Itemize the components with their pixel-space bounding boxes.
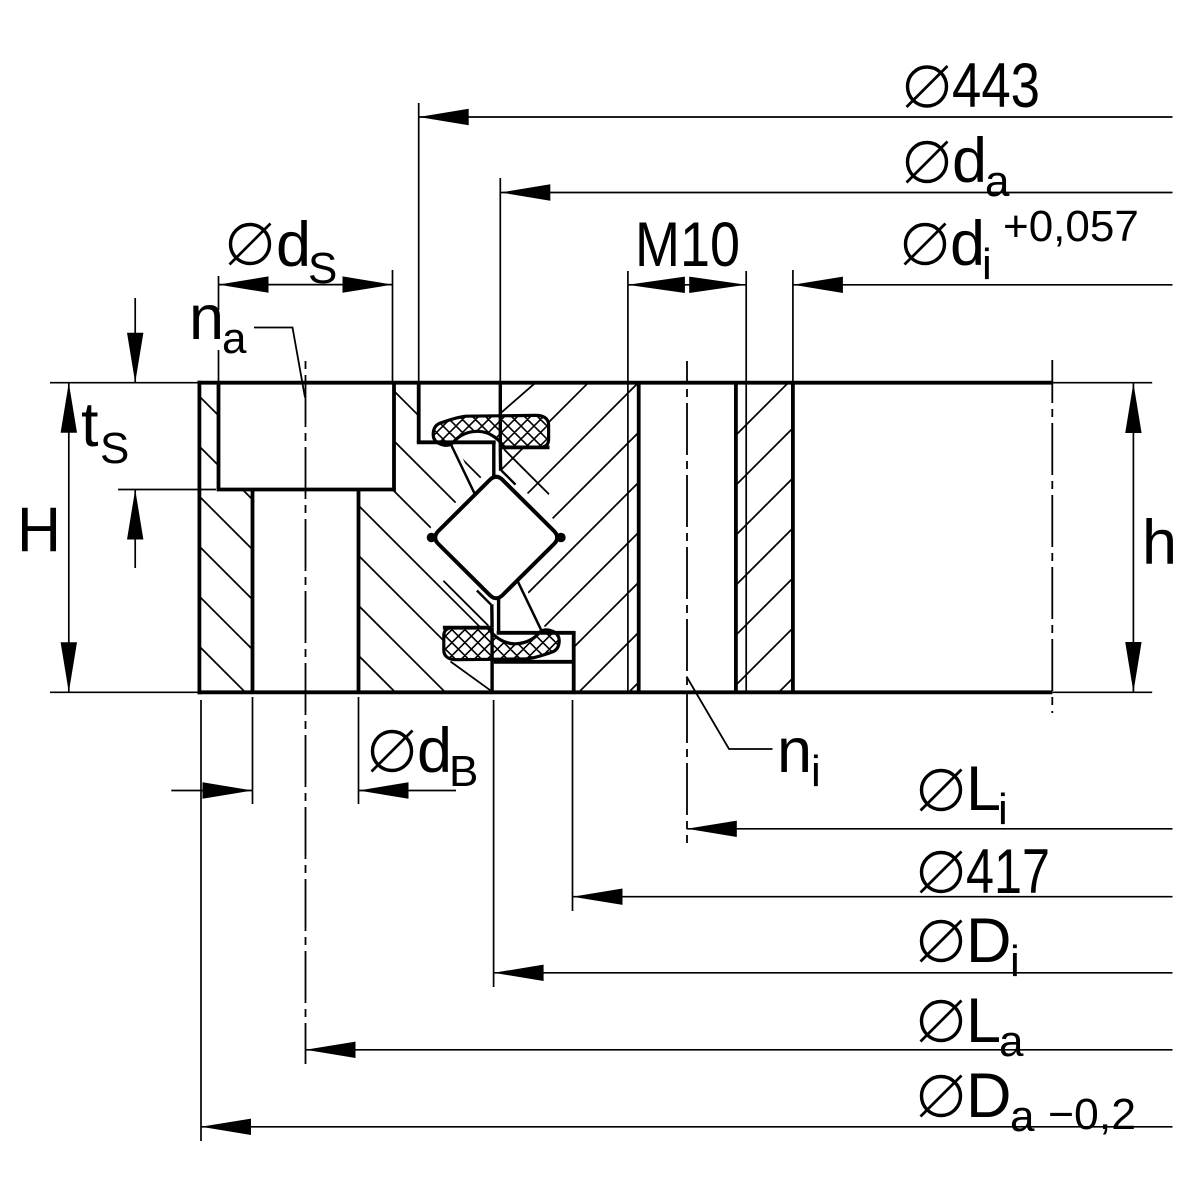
label dS: [231, 225, 270, 264]
dim Da line: [201, 1126, 1173, 1128]
dim M10 line: [628, 284, 746, 286]
svg-text:a: a: [999, 1017, 1024, 1066]
label da: [908, 143, 947, 182]
svg-text:+0,057: +0,057: [1003, 202, 1139, 251]
bottom face extension left: [50, 691, 199, 693]
roller pocket clearance (white casing): [435, 477, 557, 599]
svg-text:a: a: [1010, 1092, 1035, 1141]
label di +0,057: [906, 225, 945, 264]
label 417: [922, 853, 961, 892]
bottom face projection beyond axis: [1052, 691, 1152, 693]
dB extensions: [252, 697, 254, 804]
label dB: [373, 732, 412, 771]
M10 tapped hole right minor wall: [734, 381, 738, 694]
counterbore shoulder: [217, 488, 396, 492]
svg-text:n: n: [777, 716, 812, 786]
dim di line: [793, 284, 1173, 286]
inner ring bottom recess top edge: [494, 660, 573, 664]
svg-text:d: d: [950, 209, 985, 279]
svg-text:h: h: [1142, 508, 1177, 578]
svg-text:M10: M10: [635, 210, 740, 280]
dim 443 extension: [418, 103, 420, 381]
seal body: [433, 415, 548, 447]
outer ring seal pocket bottom: [417, 440, 496, 444]
label Li: [922, 771, 961, 810]
svg-text:L: L: [966, 754, 1001, 824]
leader ni: [687, 677, 773, 750]
bolt hole centerline outer: [305, 361, 307, 1064]
outer ring hatching: [190, 37, 510, 1007]
M10 tapped hole left minor wall: [637, 381, 641, 694]
svg-text:t: t: [81, 390, 99, 460]
svg-text:443: 443: [952, 51, 1040, 121]
outer ring outside diameter edge: [197, 381, 201, 694]
dim dB line right part: [359, 790, 457, 792]
svg-text:B: B: [449, 747, 478, 796]
lower seal and joint details (rotated copy): [380, 402, 632, 815]
svg-text:d: d: [952, 126, 987, 196]
counterbore right wall: [392, 381, 396, 490]
svg-text:D: D: [966, 1061, 1012, 1131]
dim dS line: [219, 284, 393, 286]
raceway corner relief line: [451, 444, 476, 496]
svg-text:i: i: [998, 785, 1008, 834]
svg-text:d: d: [417, 716, 452, 786]
svg-text:417: 417: [966, 837, 1050, 907]
dim La line: [306, 1049, 1173, 1051]
svg-text:a: a: [985, 157, 1010, 206]
dim Di line: [494, 972, 1173, 974]
leader na: [254, 328, 305, 398]
dim tS lower line/arrow: [134, 490, 136, 569]
svg-text:i: i: [982, 240, 992, 289]
svg-text:S: S: [100, 424, 129, 473]
pocket corner jog: [501, 470, 515, 484]
M10 thread major line left: [627, 285, 629, 692]
upper seal groove chamfer: [501, 383, 535, 413]
section axis centerline: [1051, 360, 1053, 713]
svg-text:i: i: [1010, 937, 1020, 986]
upper seal and joint details: [360, 260, 612, 673]
crossed roller (diamond): [427, 533, 436, 542]
inner ring seal step: [500, 445, 549, 449]
dim Li line: [687, 828, 1173, 830]
inner ring bore edge: [791, 381, 795, 694]
dim H line: [68, 383, 70, 693]
dim da extension: [499, 178, 501, 381]
dim dB line left part: [171, 790, 252, 792]
417 extension: [572, 700, 574, 911]
bolt hole centerline inner: [686, 361, 688, 843]
dS extensions: [218, 276, 220, 310]
label La: [922, 1002, 961, 1041]
svg-text:n: n: [189, 283, 224, 353]
top face of rings: [198, 381, 1053, 385]
lower seal groove chamfer: [451, 662, 492, 691]
counterbore left wall: [217, 381, 221, 490]
Di extension: [493, 700, 495, 987]
label Da -0,2: [922, 1077, 961, 1116]
svg-text:−0,2: −0,2: [1048, 1090, 1136, 1139]
dim 417 line: [573, 896, 1173, 898]
svg-text:H: H: [17, 495, 61, 565]
svg-text:S: S: [308, 244, 337, 293]
tS extension (shoulder): [118, 489, 216, 491]
dim tS upper line/arrow: [134, 298, 136, 383]
through hole dB left wall: [251, 490, 255, 695]
inner ring hatching: [171, 375, 1096, 700]
dim da line: [500, 192, 1172, 194]
top face extension left: [50, 382, 199, 384]
M10 thread major line right: [745, 285, 747, 692]
svg-text:D: D: [966, 906, 1012, 976]
dim h line: [1132, 383, 1134, 692]
svg-text:i: i: [811, 747, 821, 796]
label Di: [922, 922, 961, 961]
svg-text:L: L: [966, 986, 1001, 1056]
ring gap line at da: [499, 381, 502, 447]
through hole dB right wall: [357, 490, 361, 695]
Da extension: [200, 700, 202, 1141]
svg-text:a: a: [222, 314, 247, 363]
neck right segment: [499, 447, 503, 470]
top face projection beyond axis: [1052, 382, 1152, 384]
dim 443 line: [419, 116, 1173, 118]
bottom face of rings: [198, 690, 1053, 694]
raceway relief edge parallel line: [504, 449, 549, 494]
svg-text:d: d: [276, 210, 311, 280]
neck left segment: [492, 442, 495, 477]
dim di extension: [792, 270, 794, 381]
seal pocket left wall (443 dia): [417, 381, 421, 442]
M10 extensions: [627, 271, 629, 285]
label 443: [908, 67, 947, 106]
